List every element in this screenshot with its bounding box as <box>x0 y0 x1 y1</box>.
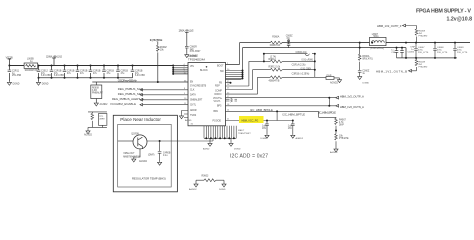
svg-text:VOUTS+: VOUTS+ <box>213 98 223 100</box>
wire cluster top <box>88 111 107 113</box>
small cap 2 <box>401 48 403 58</box>
svg-text:AGND: AGND <box>185 119 192 122</box>
vertical connector sense <box>328 98 330 106</box>
ground DGND under pad <box>230 138 232 142</box>
svg-text:(DNP): (DNP) <box>148 155 155 157</box>
svg-text:6.3V-X5R: 6.3V-X5R <box>135 75 145 77</box>
svg-text:DGND: DGND <box>234 149 241 151</box>
DNP jumper component <box>315 76 326 78</box>
wire DIFFO pin up <box>226 77 258 94</box>
capacitor col2 + ground <box>38 66 40 82</box>
svg-text:REG_PMBUS_ALERT_B: REG_PMBUS_ALERT_B <box>112 97 144 101</box>
big cap 3 <box>454 43 456 58</box>
svg-text:REG_PMBUS_SCL: REG_PMBUS_SCL <box>118 87 143 91</box>
svg-text:C060A 10n: C060A 10n <box>296 51 308 54</box>
svg-text:HBM_1V2_OUTP_A: HBM_1V2_OUTP_A <box>340 95 364 99</box>
ground cluster <box>86 130 90 134</box>
wire FB pin up <box>226 61 249 86</box>
R360A / C360Z chain <box>359 48 361 55</box>
capacitor DNP branch <box>159 141 161 151</box>
svg-text:I2C_HBM_BPDLE: I2C_HBM_BPDLE <box>150 39 163 42</box>
VOUTS sense jumper marks <box>231 98 238 102</box>
capacitor C060R <box>185 46 189 48</box>
component box <box>99 114 107 126</box>
svg-text:PGOOD: PGOOD <box>213 120 222 122</box>
svg-text:DGND: DGND <box>42 83 49 85</box>
svg-text:AGND2: AGND2 <box>189 188 197 191</box>
divider box R0608 <box>91 85 102 99</box>
svg-text:HBM_VCC_PG: HBM_VCC_PG <box>242 119 259 122</box>
op-amp U1R08 body <box>188 63 226 126</box>
capacitor at 292.8 <box>292 121 294 124</box>
svg-text:16V: 16V <box>262 128 267 130</box>
svg-text:0.91 (280): 0.91 (280) <box>301 69 312 71</box>
svg-text:47u: 47u <box>80 73 85 75</box>
svg-text:2V0_LYT6: 2V0_LYT6 <box>437 52 448 54</box>
svg-text:REG_PMBUS_SDA: REG_PMBUS_SDA <box>118 92 143 96</box>
svg-text:HBM_1V2_OUTN_A: HBM_1V2_OUTN_A <box>340 105 364 109</box>
svg-text:DNP: DNP <box>339 125 344 127</box>
svg-text:10k: 10k <box>160 49 165 51</box>
svg-text:DGND: DGND <box>261 138 268 140</box>
capacitor C2R11 column 1 <box>8 66 10 82</box>
svg-text:Place Near Inductor: Place Near Inductor <box>120 117 161 122</box>
wire SW stubs + bus <box>226 71 243 80</box>
svg-text:VOUT-: VOUT- <box>214 101 221 103</box>
svg-text:BLOCK: BLOCK <box>200 70 208 72</box>
thermal pad pin ticks <box>204 126 236 139</box>
yellow highlighted net HBM_VCC_PG <box>239 116 264 123</box>
svg-text:R060A: R060A <box>272 35 279 38</box>
svg-text:AGND2: AGND2 <box>100 103 109 106</box>
svg-text:6.3V-X5R: 6.3V-X5R <box>54 75 64 77</box>
capacitor col7 <box>103 66 105 78</box>
ground <box>185 54 189 58</box>
wire net3 y=69.7 with resistor <box>253 69 315 71</box>
wire EN y=82 <box>92 81 188 83</box>
svg-text:I2C ADD = 0x27: I2C ADD = 0x27 <box>230 154 268 160</box>
svg-text:DATA: DATA <box>190 94 196 97</box>
inner box <box>118 124 172 187</box>
wire VIN bus vertical <box>172 66 174 74</box>
resistor lower <box>416 58 418 60</box>
wire net4 y=77.3 with resistor <box>258 76 315 78</box>
wire net1 y=53.7 <box>264 53 315 55</box>
pad bus wire <box>204 137 236 139</box>
bare stub + ground at IC left low <box>182 111 189 118</box>
resistor stack at 336 <box>335 117 337 118</box>
right vertical of network <box>314 54 316 78</box>
ground AGND under pad <box>209 138 211 142</box>
svg-text:1u: 1u <box>30 61 33 63</box>
svg-text:TPAD/PWRT: TPAD/PWRT <box>238 132 251 135</box>
svg-text:DIFFO: DIFFO <box>215 94 222 96</box>
svg-text:VIN: VIN <box>190 66 194 68</box>
svg-text:BOOT: BOOT <box>217 66 224 68</box>
svg-text:31: 31 <box>191 124 194 126</box>
node dots on rail <box>8 65 10 67</box>
bottom bus rail <box>39 77 133 79</box>
svg-text:AGND2: AGND2 <box>330 151 338 154</box>
wire output rail y=42.6 <box>360 42 470 44</box>
svg-text:C3R1B (+2.2E%): C3R1B (+2.2E%) <box>292 73 310 75</box>
svg-text:PMBALRT: PMBALRT <box>92 92 103 95</box>
capacitor col6 <box>90 66 92 78</box>
emitter to ground <box>134 149 140 158</box>
svg-text:SRN6045TA: SRN6045TA <box>25 69 38 72</box>
svg-text:6.3V-X5R: 6.3V-X5R <box>41 75 51 77</box>
wire base <box>118 140 133 142</box>
svg-text:ADDR: ADDR <box>190 109 197 112</box>
svg-text:I2C_HBM_BPTLE: I2C_HBM_BPTLE <box>283 113 306 117</box>
ground DGND col1 <box>7 81 11 85</box>
ground under divider <box>94 102 98 106</box>
capacitor col9 <box>132 66 134 78</box>
svg-text:2V0_LYT6: 2V0_LYT6 <box>418 52 429 54</box>
short stubs <box>226 83 231 101</box>
svg-text:0R06/T2A: 0R06/T2A <box>270 44 281 47</box>
svg-text:REGULATOR TEMP (BH3): REGULATOR TEMP (BH3) <box>132 176 166 180</box>
resistor vertical <box>91 112 93 128</box>
svg-text:16V: 16V <box>288 128 293 130</box>
svg-text:PTA.0R0: PTA.0R0 <box>419 35 428 38</box>
vertical down from 318.5 to Rstack wire <box>319 111 337 117</box>
svg-text:CLK: CLK <box>190 90 195 92</box>
svg-text:AGND2: AGND2 <box>84 134 93 137</box>
svg-text:DGND: DGND <box>363 82 370 84</box>
svg-text:AGND2: AGND2 <box>296 137 304 140</box>
svg-text:47u: 47u <box>93 73 98 75</box>
wire SW rail y=47.6 <box>243 48 407 58</box>
resistor upper <box>415 29 418 35</box>
svg-text:SMBALERT: SMBALERT <box>190 99 203 102</box>
svg-text:OSC/Freq=500kHz: OSC/Freq=500kHz <box>118 79 138 83</box>
capacitor at 267 <box>266 121 268 124</box>
svg-text:SYNC/RESETB: SYNC/RESETB <box>190 86 207 88</box>
capacitor col5 <box>77 66 79 78</box>
svg-text:VRM+OUT: VRM+OUT <box>123 153 135 155</box>
wire collector right <box>147 138 213 141</box>
svg-text:I2C_HBM_BPDLE: I2C_HBM_BPDLE <box>318 110 336 114</box>
svg-text:RSP: RSP <box>215 86 220 88</box>
svg-text:AGND: AGND <box>203 148 210 151</box>
svg-text:49R9: 49R9 <box>99 119 105 121</box>
svg-text:BP5: BP5 <box>217 106 222 108</box>
svg-text:X7R-X6S7: X7R-X6S7 <box>190 51 202 53</box>
wire BOOT rail y=42.6 <box>240 42 360 44</box>
big cap 2 <box>434 43 436 58</box>
svg-text:0.1u: 0.1u <box>163 155 168 157</box>
svg-text:2V0_LYT6: 2V0_LYT6 <box>457 52 468 54</box>
small cap 1 <box>396 48 398 58</box>
svg-text:SW: SW <box>220 71 225 73</box>
wire net2 y=61.4 with resistor <box>249 60 315 62</box>
wire VIN stubs <box>173 66 188 74</box>
svg-text:FPGA HBM SUPPLY - V: FPGA HBM SUPPLY - V <box>416 9 471 15</box>
svg-text:EN: EN <box>190 82 194 84</box>
svg-text:BPA: BPA <box>214 110 219 113</box>
wire COMP pin up <box>226 70 253 90</box>
svg-text:HBM_1V2_OUTP_F: HBM_1V2_OUTP_F <box>377 24 402 28</box>
wire main 12V rail <box>9 65 173 67</box>
svg-text:AGND2: AGND2 <box>139 160 148 163</box>
svg-text:PT5427E: PT5427E <box>339 138 349 140</box>
svg-text:C4066: C4066 <box>408 52 415 54</box>
svg-text:COMP: COMP <box>215 91 222 93</box>
svg-text:47u: 47u <box>121 73 126 75</box>
vertical to yB <box>276 111 278 120</box>
svg-text:HBM_1V2_OUTN_B: HBM_1V2_OUTN_B <box>376 69 407 73</box>
svg-text:456B/4T/B: 456B/4T/B <box>269 81 280 83</box>
wire VOUT- y=105.8 <box>226 105 336 107</box>
wire VOUTS+ y=97.7 <box>226 97 336 99</box>
capacitor col8 <box>117 66 119 78</box>
svg-text:CNTL: CNTL <box>190 104 197 106</box>
svg-text:DGND: DGND <box>13 83 20 85</box>
svg-text:(0.46 mOhm): (0.46 mOhm) <box>370 48 384 50</box>
svg-text:AGND2: AGND2 <box>330 81 339 84</box>
svg-text:1u: 1u <box>362 73 365 75</box>
svg-text:TPS546D24A: TPS546D24A <box>188 57 205 61</box>
resistor R060Z <box>157 42 159 83</box>
svg-text:47u: 47u <box>67 73 72 75</box>
wire BOOT to top <box>226 43 240 65</box>
wire PGOOD y=120.5 <box>226 120 293 122</box>
svg-text:25V-X5R: 25V-X5R <box>12 75 22 77</box>
bottom return rail <box>397 57 458 59</box>
svg-text:MMBT8946LT1G: MMBT8946LT1G <box>123 156 141 158</box>
svg-text:1.2v@10.8: 1.2v@10.8 <box>447 16 473 22</box>
svg-text:VCCHBM_ENABLE: VCCHBM_ENABLE <box>110 102 136 106</box>
big cap 1 <box>415 43 417 58</box>
svg-text:47u: 47u <box>107 73 112 75</box>
wire cluster bottom <box>88 125 107 130</box>
svg-text:TSNS: TSNS <box>190 115 197 117</box>
svg-text:C1R1A (2.2k): C1R1A (2.2k) <box>292 64 306 67</box>
svg-text:(2.74): (2.74) <box>270 57 276 59</box>
svg-text:MADT: MADT <box>238 129 245 132</box>
capacitor col3 <box>51 66 53 78</box>
svg-text:PTA.0R0: PTA.0R0 <box>419 66 428 69</box>
svg-text:0R0(.470): 0R0(.470) <box>362 58 372 60</box>
svg-text:R0603: R0603 <box>202 175 209 177</box>
svg-text:FB: FB <box>219 82 222 84</box>
svg-text:DGND: DGND <box>219 189 226 191</box>
capacitor col4 <box>64 66 66 78</box>
cross connect <box>359 43 361 48</box>
